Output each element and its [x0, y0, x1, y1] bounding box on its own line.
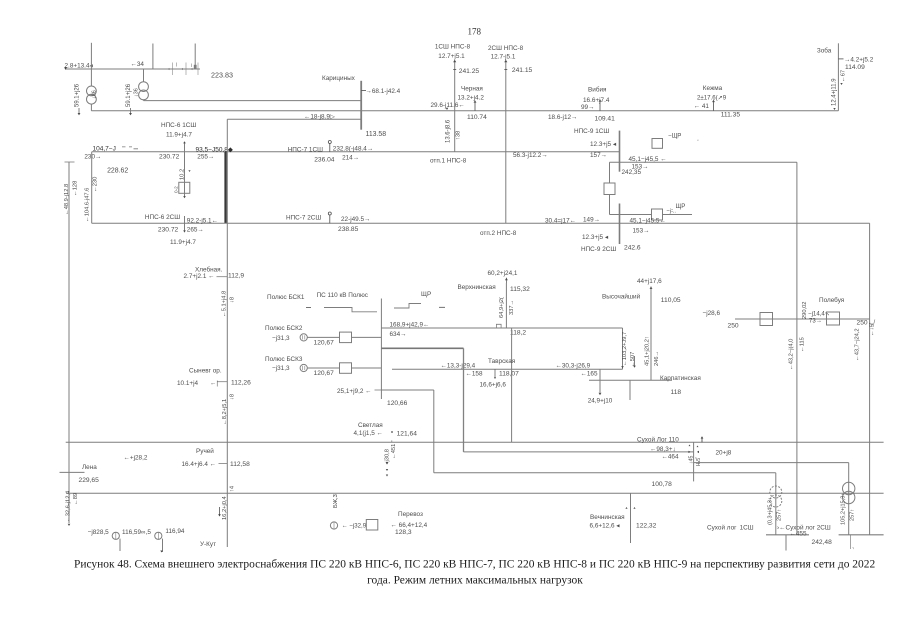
ruler small tick d: [176, 63, 178, 67]
svg-text:Полюс БСК2: Полюс БСК2: [265, 325, 303, 332]
wire reactor branch upper: [609, 162, 611, 183]
wire НПС-9 2СШ east vertical x870: [869, 223, 871, 535]
wire 1СШ НПС-8 feeder: [454, 61, 456, 152]
dash a after 104.7: [122, 146, 126, 148]
svg-text:Зоба: Зоба: [817, 46, 832, 54]
svg-text:←89: ←89: [73, 493, 79, 505]
wire long line y493: [66, 492, 884, 494]
wire to ЩР lower left: [610, 214, 652, 216]
transformer Сухой Лог T1 upper: [770, 486, 782, 498]
wire НПС-6 box left side: [91, 152, 93, 224]
box БСК3: [340, 363, 352, 374]
svg-text:2±17.6(↗9: 2±17.6(↗9: [697, 95, 727, 102]
condenser Перевоз bar: [333, 522, 335, 529]
arrow Вибия up: [599, 99, 602, 101]
svg-text:4,1(j1,5 ←: 4,1(j1,5 ←: [354, 430, 383, 437]
svg-text:НПС-6 2СШ: НПС-6 2СШ: [145, 214, 180, 221]
svg-text:←|: ←|: [210, 380, 218, 387]
flag pole on НПС-7 1СШ: [329, 143, 331, 152]
svg-text:112,58: 112,58: [230, 461, 250, 468]
svg-text:(0,3+j45,3↑: (0,3+j45,3↑: [768, 497, 774, 525]
arrow Верхнинская up: [505, 278, 508, 280]
svg-text:−j31,3: −j31,3: [272, 365, 290, 372]
svg-text:←43,7−j24,2: ←43,7−j24,2: [855, 328, 861, 361]
wire Черная feeder arrow: [474, 102, 476, 111]
svg-text:11.9+j4.7: 11.9+j4.7: [170, 239, 196, 246]
svg-text:149→: 149→: [583, 217, 600, 224]
arrow at bottom of vertical 622: [621, 366, 624, 368]
svg-text:←507: ←507: [630, 352, 636, 367]
svg-text:←67: ←67: [841, 70, 847, 82]
svg-text:Светлая: Светлая: [358, 422, 383, 429]
wire drop x512 to Сухой Лог line: [511, 328, 513, 442]
wire Верхнинская arrow lead: [505, 278, 507, 283]
svg-text:12.7+j5.1: 12.7+j5.1: [438, 53, 465, 60]
svg-text:←455: ←455: [790, 530, 807, 537]
capacitor bank БСК3 circle: [300, 364, 307, 371]
wire T1 primary lead: [90, 69, 92, 86]
svg-text:122,32: 122,32: [636, 522, 657, 529]
svg-text:НПС-9 2СШ: НПС-9 2СШ: [581, 246, 616, 253]
svg-text:22-j49.5→: 22-j49.5→: [341, 216, 370, 223]
tick top of left feeder: [65, 161, 75, 163]
svg-text:Сыневг ор.: Сыневг ор.: [189, 367, 222, 374]
arrow junction up dark: [701, 436, 704, 438]
svg-text:← 66,4+12,4: ← 66,4+12,4: [391, 522, 428, 529]
svg-text:←451: ←451: [391, 444, 397, 459]
svg-text:←13,3-j29,4: ←13,3-j29,4: [441, 363, 476, 370]
svg-text:2СШ НПС-8: 2СШ НПС-8: [488, 45, 524, 52]
BSK2 inner bar b: [304, 335, 306, 339]
wire Вечнинская stub: [630, 493, 632, 543]
box ЩР upper at НПС-9: [652, 139, 663, 149]
svg-text:Вибия: Вибия: [588, 85, 607, 93]
switch step ЩР: [394, 304, 421, 309]
svg-text:ˇ: ˇ: [697, 140, 699, 146]
svg-text:←5.1+j4.8: ←5.1+j4.8: [222, 291, 228, 317]
svg-text:110,05: 110,05: [661, 297, 681, 304]
arrow drop 24.9: [599, 393, 602, 395]
svg-text:230.72: 230.72: [158, 227, 179, 234]
svg-text:153→: 153→: [633, 227, 650, 234]
wire long line Сухой Лог 110 y442: [66, 441, 884, 443]
svg-text:116,59∞,5: 116,59∞,5: [122, 529, 151, 536]
svg-text:←32,6-j12,4: ←32,6-j12,4: [66, 490, 72, 522]
wire line T2 to Карициных: [144, 100, 362, 102]
svg-text:10.1+j4: 10.1+j4: [177, 380, 199, 387]
arrow small drop at 118.07: [494, 377, 496, 379]
svg-text:Вечнинская: Вечнинская: [590, 514, 625, 521]
svg-text:Сухой Лог 110: Сухой Лог 110: [637, 436, 679, 444]
wire БСК2 box to bus: [352, 336, 382, 338]
wire Светлая vertical: [433, 390, 435, 473]
svg-text:64,9+j2(: 64,9+j2(: [499, 297, 505, 318]
tick mark 3 on top-left bus: [197, 63, 199, 76]
svg-text:229,65: 229,65: [79, 477, 100, 484]
svg-text:118,07: 118,07: [499, 371, 519, 378]
box БСК2: [340, 332, 352, 343]
svg-text:ПС 110 кВ Полюс: ПС 110 кВ Полюс: [317, 292, 369, 299]
arrow Зоба load: [840, 83, 842, 85]
svg-text:241.25: 241.25: [459, 68, 480, 75]
tick 25.1 to Полюс vertical: [375, 389, 382, 391]
flag circle on НПС-7 2СШ: [328, 212, 331, 215]
svg-text:Рисунок 48. Схема внешнего эле: Рисунок 48. Схема внешнего электроснабже…: [74, 558, 875, 570]
svg-text:114.09: 114.09: [845, 64, 865, 71]
svg-text:12.3+j5 ◂: 12.3+j5 ◂: [582, 234, 608, 241]
svg-text:105,2+j15,3↑: 105,2+j15,3↑: [840, 493, 846, 525]
svg-text:24,9+j10: 24,9+j10: [588, 397, 613, 404]
svg-text:241.15: 241.15: [512, 67, 533, 74]
svg-text:104,7−J: 104,7−J: [93, 146, 116, 153]
svg-text:10.2: 10.2: [180, 169, 186, 180]
svg-text:Высочайший: Высочайший: [602, 292, 641, 300]
arrow НПС-6 branch bottom down: [183, 230, 186, 232]
svg-text:250: 250: [728, 323, 739, 330]
svg-text:111.35: 111.35: [721, 111, 741, 118]
generator G2 circle: [155, 532, 162, 539]
reactor R1 НПС-9: [604, 183, 615, 195]
arrow 2СШ НПС-8 top: [504, 60, 507, 63]
ruler arrow c: [191, 68, 193, 70]
wire stub up C at x195: [194, 44, 196, 70]
transformer Сухой Лог T1 lower: [770, 495, 782, 507]
arrow marker light2 at Светлая: [386, 475, 388, 477]
svg-text:года. Режим летних максимальны: года. Режим летних максимальных нагрузок: [367, 575, 583, 587]
svg-text:60,2+j24,1: 60,2+j24,1: [488, 270, 518, 277]
wire Сухой Лог T1 lead: [775, 473, 777, 535]
svg-text:Лена: Лена: [82, 464, 97, 471]
svg-text:←104.6-j47.6: ←104.6-j47.6: [85, 188, 91, 222]
generator G1 circle: [112, 532, 119, 539]
tick mark 2 on top-left bus: [185, 63, 187, 76]
tick Сыневг to trunk: [218, 381, 228, 383]
svg-text:←128: ←128: [73, 181, 79, 196]
ruler square mark: [194, 65, 197, 69]
box ЩР lower: [652, 209, 663, 220]
wire НПС-6 tie to Карициных: [227, 118, 361, 120]
svg-text:отп.1 НПС-8: отп.1 НПС-8: [430, 157, 467, 164]
arrow junction right on 452: [697, 451, 699, 453]
svg-text:←165: ←165: [581, 370, 598, 377]
svg-text:92.2-j5.1←: 92.2-j5.1←: [187, 218, 218, 225]
arrow junction small up b: [697, 446, 699, 448]
svg-text:← −j32,9: ← −j32,9: [342, 522, 367, 529]
svg-text:120,67: 120,67: [314, 339, 335, 346]
svg-text:Верхнинская: Верхнинская: [458, 284, 497, 291]
dash b after 104.7: [129, 146, 132, 148]
transformer T1 upper winding: [87, 86, 97, 96]
tick Ручей to trunk: [219, 463, 228, 465]
svg-text:j30,8: j30,8: [384, 449, 390, 462]
winding symbol НПС-6 branch: [179, 182, 190, 193]
svg-text:44+j17,6: 44+j17,6: [637, 278, 662, 285]
bus Сухой лог 2СШ: [839, 534, 884, 536]
tick Зоба branch: [838, 58, 843, 60]
wire 2СШ main line НПС-6 to НПС-9: [92, 222, 870, 224]
wire БСК3 to box: [307, 367, 339, 369]
tick Хлебная to trunk: [217, 276, 228, 278]
wire НПС-6 branch lower: [184, 216, 186, 231]
svg-text:←464: ←464: [662, 454, 679, 461]
wire БСК2 to box: [307, 336, 339, 338]
svg-text:У-Кут: У-Кут: [200, 541, 216, 548]
svg-text:178: 178: [468, 27, 482, 37]
svg-text:↓8: ↓8: [230, 297, 236, 303]
svg-text:Полебуя: Полебуя: [819, 296, 845, 304]
svg-text:13.6-j8.6: 13.6-j8.6: [446, 119, 452, 143]
svg-text:←103,2+J9,7: ←103,2+J9,7: [622, 332, 628, 366]
svg-text:ЩР: ЩР: [421, 291, 431, 298]
svg-text:93,5−J50,8◆: 93,5−J50,8◆: [196, 146, 234, 153]
svg-text:Њ5̊: Њ5̊: [695, 457, 702, 466]
wire lead dark arrow trunk: [219, 507, 221, 515]
svg-text:265→: 265→: [187, 226, 204, 233]
wire Сухой Лог T2 lead: [848, 463, 850, 535]
dash disconnector a: [306, 307, 311, 309]
wire stub below G2: [162, 539, 164, 552]
svg-text:16,2+j0,4: 16,2+j0,4: [222, 495, 228, 520]
svg-text:109.41: 109.41: [595, 115, 616, 122]
svg-text:↓86: ↓86: [92, 90, 98, 99]
wire Полюс trунk vertical x227: [226, 119, 228, 547]
svg-text:230.72: 230.72: [159, 153, 180, 160]
wire 1СШ main line НПС-6 to НПС-9: [92, 151, 620, 153]
bus НПС-9 1СШ bar: [619, 131, 621, 172]
svg-text:59.1+j26: 59.1+j26: [75, 83, 81, 107]
svg-text:257↑: 257↑: [850, 509, 856, 521]
arrow below G2: [160, 551, 162, 553]
wire small drop at 118.07: [494, 369, 496, 377]
wire НПС-6 transformer branch upper: [184, 143, 186, 198]
arrow bottom left feeder: [68, 524, 71, 526]
svg-text:12.4+j11.9: 12.4+j11.9: [831, 78, 837, 106]
wire long 220kV line to Зоба: [91, 110, 838, 112]
junction arrow at left end of top-left bus: [64, 67, 67, 69]
svg-text:↓36: ↓36: [134, 88, 140, 97]
wire stub below Сухой лог 2СШ: [850, 535, 852, 549]
wire stub up B at x153: [152, 44, 154, 70]
ruler arrow a: [168, 68, 170, 70]
svg-text:12.7-j5.1: 12.7-j5.1: [491, 53, 516, 60]
transformer T1 lower winding: [87, 94, 97, 104]
transformer Сухой Лог T2 upper: [843, 482, 855, 494]
svg-text:337→: 337→: [509, 300, 515, 315]
svg-text:→68.1-j42.4: →68.1-j42.4: [366, 88, 401, 95]
svg-text:118: 118: [671, 389, 682, 396]
svg-text:Полюс БСК3: Полюс БСК3: [265, 356, 303, 363]
svg-text:2.8+13.4◂: 2.8+13.4◂: [65, 63, 93, 70]
wire Верхнинская feeder: [505, 283, 507, 328]
svg-text:16,6+j6,6: 16,6+j6,6: [480, 381, 507, 388]
ruler small tick e: [191, 64, 193, 68]
dash disconnector b: [439, 306, 445, 308]
svg-text:Таврская: Таврская: [488, 358, 516, 365]
arrow marker dark at Светлая: [386, 462, 389, 464]
arrow Высочайший up: [650, 287, 653, 289]
wire tie to Сухой Лог junction: [464, 451, 694, 453]
svg-text:←18-j8.9▷: ←18-j8.9▷: [304, 114, 335, 121]
svg-text:257↑: 257↑: [777, 509, 783, 521]
svg-text:242,48: 242,48: [812, 539, 833, 546]
svg-text:−j28,6: −j28,6: [703, 310, 721, 317]
wire top-left 110kV bus: [65, 68, 200, 70]
wire Вибия feeder arrow: [599, 101, 601, 111]
reactor R3 Полебуя right: [827, 312, 840, 325]
svg-text:Сухой лог 1СШ: Сухой лог 1СШ: [707, 523, 754, 531]
svg-text:45,1−j45,5 ←: 45,1−j45,5 ←: [629, 156, 667, 163]
wire Зоба feeder: [837, 43, 839, 111]
svg-text:←34: ←34: [131, 61, 145, 68]
svg-text:Черная: Черная: [461, 86, 483, 93]
wire stub below G1: [119, 539, 121, 551]
svg-text:1СШ НПС-8: 1СШ НПС-8: [435, 43, 471, 50]
svg-text:−j∶..: −j∶..: [667, 208, 677, 214]
wire thick tie horizontal: [381, 347, 463, 349]
svg-text:255→: 255→: [197, 153, 214, 160]
wire Высочайший arrow lead: [650, 287, 652, 293]
svg-text:56.3-j12.2→: 56.3-j12.2→: [513, 152, 548, 159]
svg-text:Кежма: Кежма: [703, 85, 723, 92]
svg-text:отп.2 НПС-8: отп.2 НПС-8: [480, 230, 517, 237]
svg-text:112,9: 112,9: [228, 273, 244, 280]
svg-text:←48.9-j12.8: ←48.9-j12.8: [64, 184, 70, 215]
ruler arrow b: [181, 68, 183, 70]
wire drop 24.9 from Таврская: [599, 369, 601, 392]
wire Сухой Лог to T right: [694, 462, 849, 464]
arrow Вечнинская b: [633, 507, 635, 509]
dash c after 104.7: [134, 148, 139, 150]
svg-text:73→: 73→: [809, 317, 822, 324]
wire Таврская line: [392, 368, 623, 370]
svg-text:157→: 157→: [590, 152, 607, 159]
wire Высочайший feeder: [650, 292, 652, 380]
arrow load drop B: [633, 366, 636, 368]
arrow junction left on 452: [689, 451, 691, 453]
svg-text:128,3: 128,3: [395, 529, 412, 536]
wire T1 secondary lead: [90, 104, 92, 111]
wire ПС Полюс vertical: [380, 299, 382, 400]
wire НПС-9 1СШ outgoing 45.1: [610, 161, 797, 163]
svg-text:→4.2+j5.2: →4.2+j5.2: [844, 56, 874, 63]
svg-text:45,1+j20,2↑: 45,1+j20,2↑: [645, 336, 651, 366]
svg-text:←115: ←115: [800, 337, 806, 352]
arrow НПС-6 branch mid down: [183, 196, 186, 198]
tick mark 1 on top-left bus: [172, 63, 174, 76]
BSK3 inner bar b: [304, 366, 306, 370]
load arrow below T2 label: [129, 113, 132, 115]
svg-text:634→: 634→: [390, 331, 407, 338]
svg-text:←43,2−j(4,0: ←43,2−j(4,0: [789, 339, 795, 370]
svg-text:НПС-7 2СШ: НПС-7 2СШ: [286, 214, 321, 221]
svg-text:11.9+j4.7: 11.9+j4.7: [166, 131, 192, 138]
wire long line y473: [434, 472, 776, 474]
svg-text:116,94: 116,94: [165, 528, 184, 535]
condenser Перевоз circle: [330, 522, 337, 529]
svg-text:118,2: 118,2: [510, 330, 526, 337]
svg-text:110.74: 110.74: [467, 114, 487, 121]
transformer T2 upper winding: [139, 82, 149, 92]
wire stub below Сухой лог 1СШ: [785, 535, 787, 551]
svg-text:214→: 214→: [342, 154, 359, 161]
svg-text:НПС-7 1СШ: НПС-7 1СШ: [288, 146, 323, 153]
svg-text:БЖ,3: БЖ,3: [333, 494, 339, 508]
svg-text:30.4=j17←: 30.4=j17←: [545, 217, 576, 224]
notch П on line at Верхнинская: [496, 324, 501, 328]
svg-text:59.1+j26: 59.1+j26: [126, 83, 132, 107]
svg-text:←+j28,2: ←+j28,2: [124, 454, 148, 461]
wire thick tie vertical: [463, 348, 465, 452]
wire load drop B x634: [634, 356, 636, 366]
dot junction Светлая: [391, 431, 393, 433]
svg-text:Карпатинская: Карпатинская: [660, 375, 701, 382]
svg-text:115,32: 115,32: [510, 286, 530, 293]
svg-text:↓8: ↓8: [230, 394, 236, 400]
svg-text:236.04: 236.04: [314, 157, 335, 164]
svg-text:120,66: 120,66: [387, 400, 408, 407]
wire Полюс to НПС-9 line 168.9: [381, 327, 622, 329]
svg-text:Карициных: Карициных: [322, 75, 356, 82]
svg-text:113.58: 113.58: [366, 131, 387, 138]
arrow Кежма up: [712, 100, 715, 102]
svg-text:Полюс БСК1: Полюс БСК1: [267, 294, 305, 301]
svg-text:223.83: 223.83: [211, 72, 233, 80]
BSK2 inner bar a: [302, 335, 304, 339]
wire stub below Карпатинская: [629, 380, 631, 400]
flag pole on НПС-7 2СШ: [329, 215, 331, 224]
svg-text:6,6+12,6 ◂: 6,6+12,6 ◂: [590, 522, 620, 529]
svg-text:НПС-9 1СШ: НПС-9 1СШ: [574, 128, 609, 135]
svg-text:112,26: 112,26: [231, 379, 251, 386]
wire Полюс lower link horizontal: [381, 389, 433, 391]
load arrow below T1 label: [78, 113, 81, 115]
svg-text:←30,3-j26,9: ←30,3-j26,9: [556, 362, 591, 369]
wire up-arrow stem at Сухой Лог junction: [701, 438, 703, 443]
svg-text:100,78: 100,78: [652, 481, 673, 488]
svg-text:⌝: ⌝: [852, 547, 854, 552]
svg-text:25,1+j9,2 ←: 25,1+j9,2 ←: [337, 388, 372, 395]
svg-text:←230: ←230: [93, 177, 99, 192]
svg-text:99→: 99→: [581, 104, 594, 111]
bus НПС-6 dark bar: [224, 152, 226, 224]
svg-text:0-2: 0-2: [174, 186, 179, 193]
tick on 2СШ НПС-8 feeder: [504, 69, 507, 71]
wire T2 primary lead: [143, 69, 145, 82]
svg-text:НПС-6 1СШ: НПС-6 1СШ: [161, 122, 196, 129]
svg-text:Ручей: Ручей: [196, 447, 214, 455]
wire branch tick at Карициных: [361, 89, 366, 91]
svg-text:ЩР: ЩР: [676, 203, 686, 210]
svg-text:242,35: 242,35: [622, 169, 642, 176]
svg-text:242.6: 242.6: [624, 244, 641, 251]
svg-text:−j828,5: −j828,5: [88, 529, 110, 536]
svg-text:−j31,3: −j31,3: [272, 335, 290, 342]
svg-text:238.85: 238.85: [338, 226, 359, 233]
svg-text:←98,3+↓: ←98,3+↓: [650, 446, 676, 453]
wire БСК3 box to bus: [352, 367, 382, 369]
svg-text:Перевоз: Перевоз: [398, 511, 423, 518]
wire T2 secondary lead: [143, 100, 145, 101]
wire stub up A at x91: [90, 43, 92, 69]
arrow Черная up: [474, 100, 477, 102]
tick jog on line 442: [391, 440, 393, 442]
transformer T2 lower winding: [139, 90, 149, 100]
svg-text:20+j8: 20+j8: [716, 449, 732, 456]
wire from ЩР lower right: [663, 214, 693, 216]
svg-text:18.6-j12→: 18.6-j12→: [548, 114, 577, 121]
arrow НПС-6 branch top: [183, 141, 186, 143]
arrow on line at 29.6-j11.6: [446, 108, 449, 110]
